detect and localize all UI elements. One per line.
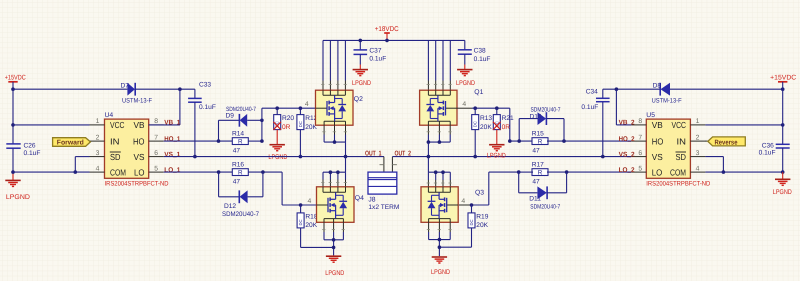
svg-text:Reverse: Reverse bbox=[715, 140, 738, 147]
svg-text:VS: VS bbox=[134, 152, 145, 162]
svg-text:U4: U4 bbox=[105, 112, 114, 119]
svg-text:DC: DC bbox=[298, 219, 303, 225]
svg-text:D9: D9 bbox=[226, 113, 235, 120]
svg-text:DC: DC bbox=[469, 219, 474, 225]
svg-text:R19: R19 bbox=[476, 214, 488, 221]
svg-text:8: 8 bbox=[154, 118, 158, 125]
svg-text:R: R bbox=[538, 169, 543, 176]
svg-text:C34: C34 bbox=[586, 89, 598, 96]
svg-text:LO: LO bbox=[652, 167, 663, 177]
svg-text:VS: VS bbox=[652, 152, 663, 162]
svg-text:D8: D8 bbox=[653, 82, 662, 89]
svg-text:20K: 20K bbox=[305, 222, 317, 229]
svg-text:LPGND: LPGND bbox=[773, 189, 792, 196]
svg-text:LPGND: LPGND bbox=[431, 269, 450, 276]
svg-text:R: R bbox=[238, 138, 243, 145]
svg-text:SD: SD bbox=[676, 152, 687, 162]
svg-text:0.1uF: 0.1uF bbox=[24, 150, 41, 157]
svg-text:COM: COM bbox=[110, 167, 126, 177]
svg-text:6: 6 bbox=[638, 150, 642, 157]
svg-text:J8: J8 bbox=[368, 196, 375, 203]
svg-text:3: 3 bbox=[96, 150, 100, 157]
svg-text:1: 1 bbox=[96, 118, 100, 125]
svg-text:DC: DC bbox=[298, 121, 303, 127]
svg-text:U5: U5 bbox=[646, 112, 655, 119]
svg-text:R20: R20 bbox=[282, 115, 294, 122]
svg-text:USTM-13-F: USTM-13-F bbox=[652, 98, 682, 105]
svg-text:6: 6 bbox=[154, 150, 158, 157]
svg-text:COM: COM bbox=[670, 167, 686, 177]
svg-text:C37: C37 bbox=[369, 47, 381, 54]
svg-text:0.1uF: 0.1uF bbox=[581, 104, 598, 111]
svg-text:+15VDC: +15VDC bbox=[5, 74, 26, 81]
svg-text:1: 1 bbox=[696, 118, 700, 125]
svg-text:C26: C26 bbox=[24, 143, 36, 150]
svg-text:D10: D10 bbox=[530, 113, 542, 120]
svg-text:VCC: VCC bbox=[110, 120, 125, 130]
svg-text:SDM20U40-7: SDM20U40-7 bbox=[226, 106, 256, 113]
svg-text:VB: VB bbox=[134, 120, 145, 130]
svg-text:R14: R14 bbox=[232, 130, 244, 137]
svg-text:0.1uF: 0.1uF bbox=[474, 56, 491, 63]
svg-text:D12: D12 bbox=[224, 203, 236, 210]
svg-text:VB_1: VB_1 bbox=[164, 120, 180, 127]
svg-text:Q4: Q4 bbox=[355, 195, 364, 202]
svg-text:VS_2: VS_2 bbox=[619, 151, 635, 158]
svg-text:1x2 TERM: 1x2 TERM bbox=[368, 204, 399, 211]
svg-text:47: 47 bbox=[233, 178, 241, 185]
svg-text:47: 47 bbox=[532, 147, 540, 154]
svg-text:Forward: Forward bbox=[57, 140, 84, 147]
svg-text:2: 2 bbox=[96, 134, 100, 141]
svg-text:LPGND: LPGND bbox=[352, 80, 371, 87]
svg-text:C36: C36 bbox=[762, 142, 774, 149]
svg-text:3: 3 bbox=[696, 150, 700, 157]
svg-text:HO_1: HO_1 bbox=[164, 136, 180, 143]
svg-text:VS_1: VS_1 bbox=[164, 151, 180, 158]
svg-text:IRS2004STRPBFCT-ND: IRS2004STRPBFCT-ND bbox=[646, 181, 710, 188]
svg-text:8: 8 bbox=[638, 118, 642, 125]
svg-text:LPGND: LPGND bbox=[6, 194, 30, 201]
svg-text:Q3: Q3 bbox=[475, 189, 484, 196]
svg-text:4: 4 bbox=[308, 198, 312, 205]
svg-text:LPGND: LPGND bbox=[325, 270, 344, 277]
svg-text:5: 5 bbox=[154, 165, 158, 172]
svg-text:+15VDC: +15VDC bbox=[770, 75, 796, 82]
svg-text:HO: HO bbox=[133, 136, 145, 146]
svg-text:Q1: Q1 bbox=[474, 89, 483, 96]
svg-text:5: 5 bbox=[638, 165, 642, 172]
svg-text:20K: 20K bbox=[476, 222, 488, 229]
svg-text:DC: DC bbox=[473, 121, 478, 127]
svg-text:IRS2004STRPBFCT-ND: IRS2004STRPBFCT-ND bbox=[105, 181, 169, 188]
svg-text:OUT_1: OUT_1 bbox=[365, 150, 382, 157]
svg-text:SDM20U40-7: SDM20U40-7 bbox=[222, 211, 259, 218]
svg-text:R17: R17 bbox=[532, 161, 544, 168]
svg-text:2: 2 bbox=[696, 134, 700, 141]
svg-text:LPGND: LPGND bbox=[487, 152, 506, 159]
svg-text:C33: C33 bbox=[199, 81, 211, 88]
svg-text:HO_2: HO_2 bbox=[619, 136, 635, 143]
svg-text:LO_1: LO_1 bbox=[164, 167, 180, 174]
svg-text:+18VDC: +18VDC bbox=[375, 26, 399, 33]
svg-text:R: R bbox=[238, 169, 243, 176]
svg-text:0.1uF: 0.1uF bbox=[199, 104, 216, 111]
svg-text:SDM20U40-7: SDM20U40-7 bbox=[531, 106, 561, 113]
svg-text:IN: IN bbox=[677, 136, 687, 146]
svg-text:USTM-13-F: USTM-13-F bbox=[122, 98, 152, 105]
svg-text:LO_2: LO_2 bbox=[619, 167, 635, 174]
svg-text:R21: R21 bbox=[502, 115, 514, 122]
svg-text:4: 4 bbox=[305, 101, 309, 108]
svg-text:4: 4 bbox=[96, 165, 100, 172]
svg-text:47: 47 bbox=[233, 147, 241, 154]
svg-text:C38: C38 bbox=[474, 48, 486, 55]
svg-text:20K: 20K bbox=[480, 124, 492, 131]
svg-text:LPGND: LPGND bbox=[456, 80, 475, 87]
svg-text:LO: LO bbox=[134, 167, 145, 177]
svg-text:VB: VB bbox=[652, 120, 663, 130]
svg-text:Q2: Q2 bbox=[354, 96, 363, 103]
svg-text:VCC: VCC bbox=[672, 120, 687, 130]
svg-text:R16: R16 bbox=[232, 161, 244, 168]
svg-text:R: R bbox=[538, 138, 543, 145]
svg-text:HO: HO bbox=[652, 136, 664, 146]
svg-text:SD: SD bbox=[110, 152, 121, 162]
svg-text:SDM20U40-7: SDM20U40-7 bbox=[530, 203, 560, 210]
svg-text:47: 47 bbox=[532, 178, 540, 185]
svg-text:4: 4 bbox=[696, 165, 700, 172]
svg-text:7: 7 bbox=[638, 134, 642, 141]
svg-text:R13: R13 bbox=[480, 115, 492, 122]
svg-text:7: 7 bbox=[154, 134, 158, 141]
svg-text:4: 4 bbox=[461, 198, 465, 205]
svg-text:0.1uF: 0.1uF bbox=[759, 150, 776, 157]
svg-text:D11: D11 bbox=[529, 195, 541, 202]
svg-text:0R: 0R bbox=[502, 124, 511, 131]
svg-text:0.1uF: 0.1uF bbox=[369, 56, 386, 63]
svg-text:4: 4 bbox=[462, 101, 466, 108]
svg-text:VB_2: VB_2 bbox=[619, 120, 635, 127]
svg-text:IN: IN bbox=[110, 136, 120, 146]
svg-text:R15: R15 bbox=[532, 130, 544, 137]
svg-text:LPGND: LPGND bbox=[268, 154, 287, 161]
svg-text:0R: 0R bbox=[282, 124, 291, 131]
